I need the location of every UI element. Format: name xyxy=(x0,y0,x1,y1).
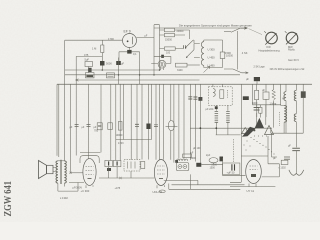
capacitor C10 dark xyxy=(146,124,150,130)
right verticals xyxy=(256,84,258,127)
resistor R2 xyxy=(164,33,174,36)
svg-text:s 1302: s 1302 xyxy=(60,196,68,200)
capacitor C7 xyxy=(97,123,102,130)
tube EF9 (top-left circle) xyxy=(123,34,137,48)
capacitor C8 xyxy=(108,123,113,130)
trimmer T2 xyxy=(107,73,115,78)
wire AF line xyxy=(99,177,154,179)
osc coil box xyxy=(176,163,189,171)
tuning gang line xyxy=(190,127,272,129)
resistor R11 small xyxy=(259,107,262,113)
capacitor C15 bars xyxy=(254,108,260,111)
knob K1 xyxy=(266,32,278,44)
svg-text:U 300: U 300 xyxy=(208,48,216,52)
tube UCH21 xyxy=(154,160,167,186)
capacitor row mid: C5 xyxy=(75,125,79,127)
svg-text:U 450: U 450 xyxy=(208,56,216,60)
trimmer T3 xyxy=(263,92,269,99)
wire dial cord to knob xyxy=(249,29,263,35)
output transformer winding right xyxy=(64,161,66,183)
dashed link xyxy=(279,112,281,126)
resistor R4 in bracket xyxy=(220,52,225,59)
capacitor C13 xyxy=(193,97,197,99)
bus wire y80 with arrow xyxy=(76,79,200,81)
earth symbol xyxy=(289,170,304,175)
wire EF9 grid left xyxy=(65,39,123,41)
bus wire y70 xyxy=(65,69,160,71)
capacitor C18 dark xyxy=(196,163,201,167)
svg-text:4 SK: 4 SK xyxy=(242,51,248,55)
resistor R5 horizontal xyxy=(176,63,188,67)
tuning gang triangle a xyxy=(242,128,249,134)
capacitor C-ant dark above bus xyxy=(254,77,260,81)
inductor L4 tall winding xyxy=(284,105,287,122)
svg-text:5000: 5000 xyxy=(106,62,112,66)
svg-text:20000: 20000 xyxy=(177,30,185,33)
capacitor C14 dark xyxy=(198,97,202,101)
svg-text:µF: µF xyxy=(121,62,124,66)
transformer core xyxy=(61,160,62,184)
chassis left edge xyxy=(56,84,58,156)
tuning gang triangle d xyxy=(265,126,274,135)
switch S1 contacts xyxy=(186,40,195,58)
wire IF bracket xyxy=(204,40,223,68)
resistor R-grid vertical xyxy=(101,40,103,61)
capacitor C-cath (dark) xyxy=(127,50,131,54)
inductor L5 xyxy=(295,84,297,147)
svg-text:UCH 21: UCH 21 xyxy=(153,190,163,194)
bus wire y75 xyxy=(65,74,240,76)
cap cluster C16 C17 xyxy=(105,160,113,166)
resistor R12 xyxy=(183,154,192,158)
dashed box filter xyxy=(208,87,232,106)
rectifier section frame xyxy=(241,156,279,177)
svg-text:+µF 50: +µF 50 xyxy=(227,171,236,174)
svg-text:2µF: 2µF xyxy=(206,154,211,157)
wire y56 xyxy=(76,55,102,57)
svg-text:1500: 1500 xyxy=(210,167,216,170)
knob K2 xyxy=(286,32,298,44)
rail V x159 xyxy=(154,25,160,70)
svg-text:1700: 1700 xyxy=(108,37,114,41)
wire EF9 anode right xyxy=(136,37,154,39)
svg-text:4000: 4000 xyxy=(252,102,258,105)
svg-text:15000: 15000 xyxy=(165,39,173,42)
speaker xyxy=(39,161,47,179)
component input box left xyxy=(85,62,93,67)
capacitor C12 xyxy=(188,97,192,99)
svg-text:3100: 3100 xyxy=(177,69,183,72)
svg-text:s 1302: s 1302 xyxy=(279,167,287,170)
electrolytic box xyxy=(223,163,240,174)
tube T-small (circle) xyxy=(158,60,166,68)
capacitor C-osc dark xyxy=(220,157,224,162)
antenna cap C20 xyxy=(292,148,300,150)
trimmer T1 xyxy=(86,73,95,78)
osc coil bumps above xyxy=(177,159,188,161)
box component dark xyxy=(301,91,306,98)
capacitor C2 row dark xyxy=(116,61,121,65)
svg-text:5µF: 5µF xyxy=(85,58,90,62)
tube AL4 output xyxy=(83,159,96,186)
capacitor C11 xyxy=(154,125,158,127)
capacitor C6 xyxy=(87,125,91,127)
svg-text:1 Meg: 1 Meg xyxy=(270,103,277,106)
inductor L3 xyxy=(285,84,287,133)
capacitor anode cap dark xyxy=(161,55,164,58)
wire to IF coil xyxy=(194,44,200,58)
svg-text:5000: 5000 xyxy=(191,157,197,160)
AL4 top frame xyxy=(80,156,99,163)
tuning gang stroke c xyxy=(242,127,256,137)
svg-text:KW: KW xyxy=(267,45,272,49)
capacitor C9 xyxy=(135,124,139,126)
dial pointer shaft xyxy=(237,31,239,70)
resistor R14 xyxy=(281,160,288,164)
svg-text:+C 300: +C 300 xyxy=(81,189,90,193)
dial drive top wires xyxy=(252,84,281,105)
capacitor C3 small dark crossing bus xyxy=(88,68,91,72)
resistor R3 xyxy=(164,47,175,50)
tuning gang triangle b dark xyxy=(255,118,264,128)
svg-text:475: 475 xyxy=(84,53,89,57)
resistor R9 xyxy=(255,90,259,99)
svg-text:1703: 1703 xyxy=(118,142,124,145)
junction x2 xyxy=(119,177,121,179)
rail V x154 xyxy=(153,25,155,75)
svg-text:EF 9: EF 9 xyxy=(124,30,131,34)
svg-text:Hauptabstimmung: Hauptabstimmung xyxy=(259,48,281,52)
bottom bus wires xyxy=(169,188,241,190)
svg-text:10000: 10000 xyxy=(116,134,124,137)
lamp oval xyxy=(168,121,174,131)
wire top note line xyxy=(154,27,248,29)
resistor R10 zigzag xyxy=(273,84,275,127)
svg-text:2 SK Lage: 2 SK Lage xyxy=(254,66,266,69)
junction x1 xyxy=(69,172,71,174)
inductor L6 xyxy=(294,114,296,122)
small box comp xyxy=(141,162,145,169)
svg-text:Die angegebenen Spannungen sin: Die angegebenen Spannungen sind gegen Ma… xyxy=(179,23,252,27)
dotted coupling trail xyxy=(244,136,275,155)
tube UY11 xyxy=(246,160,262,184)
svg-text:Gen 60 V: Gen 60 V xyxy=(288,58,299,62)
capacitor C4 bars xyxy=(184,45,186,49)
svg-text:1 M: 1 M xyxy=(92,47,96,51)
transformer wires xyxy=(58,183,84,192)
bus y133 right xyxy=(271,132,303,134)
inductor L2 in box xyxy=(213,89,215,97)
wire to electrolytics xyxy=(223,158,246,176)
output transformer winding left xyxy=(56,161,58,183)
coil can oval xyxy=(209,158,218,163)
svg-text:+475: +475 xyxy=(115,187,121,190)
junction dots xyxy=(88,69,160,75)
pointer arrow 2SK xyxy=(204,66,211,72)
capacitor C-screen (dark) below resistor xyxy=(100,61,105,66)
resistor R6 vertical xyxy=(118,122,122,131)
svg-text:1500: 1500 xyxy=(225,51,231,55)
svg-text:Rückk.: Rückk. xyxy=(288,49,296,52)
chassis top bus xyxy=(57,83,312,85)
svg-text:100: 100 xyxy=(166,51,171,54)
wire mid joiner xyxy=(116,139,152,141)
node arrow dial cord top xyxy=(245,27,248,29)
resistor R7 in box xyxy=(220,90,224,99)
svg-text:0,1: 0,1 xyxy=(133,52,137,56)
resistor R8 below box xyxy=(215,105,217,106)
svg-text:µF/300V: µF/300V xyxy=(73,186,83,189)
capacitor C19 xyxy=(284,157,290,159)
wire gang to rectifier box xyxy=(241,84,268,182)
svg-text:UY 11: UY 11 xyxy=(247,189,255,193)
resistor R1 top xyxy=(164,28,174,32)
capacitor C-gang dark xyxy=(243,96,249,100)
svg-text:±26 4V Röhrenspannungen u.Str.: ±26 4V Röhrenspannungen u.Str. xyxy=(270,68,306,71)
dashed box 2 xyxy=(124,160,140,172)
wire EF9 cathode down xyxy=(119,48,140,85)
vertical wires comb xyxy=(58,84,60,157)
svg-text:µF 100: µF 100 xyxy=(193,147,201,150)
svg-text:U 490: U 490 xyxy=(208,64,216,68)
svg-text:µF 224: µF 224 xyxy=(206,108,214,111)
svg-text:700: 700 xyxy=(94,130,99,133)
svg-text:ZGW 641: ZGW 641 xyxy=(2,181,14,217)
inductor L-IF (top, bumps left) xyxy=(201,42,203,66)
